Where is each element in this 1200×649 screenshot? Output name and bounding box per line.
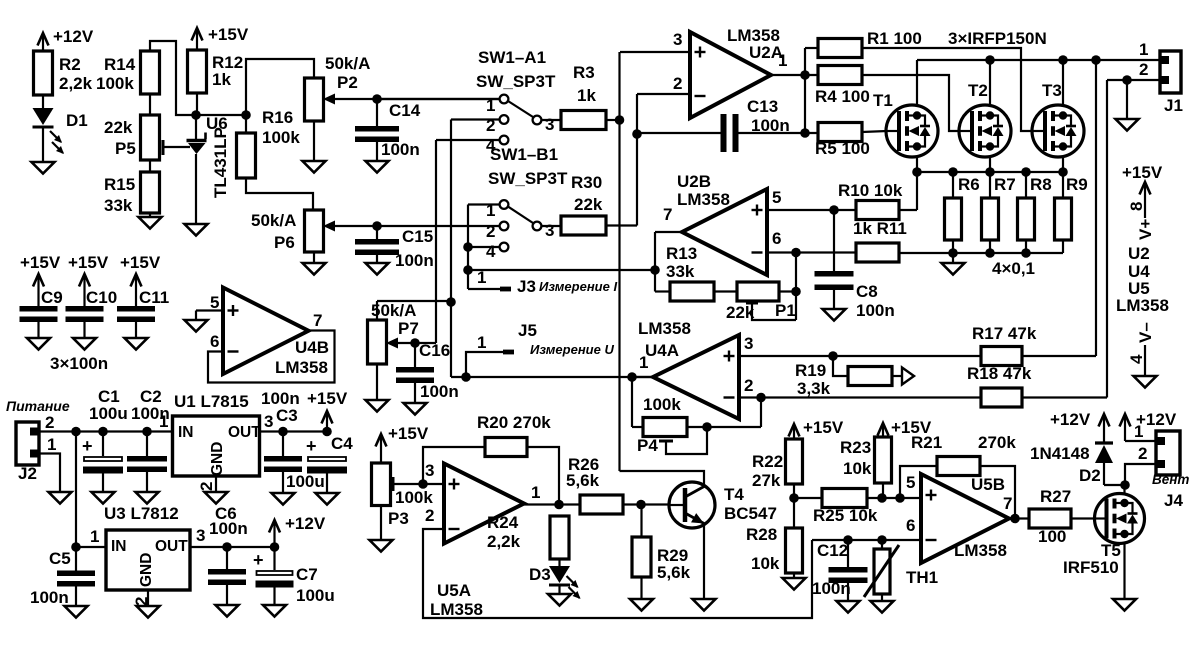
svg-text:+15V: +15V — [20, 253, 61, 272]
svg-text:R21: R21 — [911, 433, 942, 452]
svg-text:J5: J5 — [518, 321, 537, 340]
svg-text:3: 3 — [545, 115, 554, 134]
svg-text:100: 100 — [1038, 527, 1066, 546]
svg-text:7: 7 — [313, 311, 322, 330]
svg-text:R3: R3 — [573, 63, 595, 82]
svg-text:6: 6 — [906, 516, 915, 535]
svg-text:10k: 10k — [843, 459, 872, 478]
svg-text:C4: C4 — [331, 434, 353, 453]
svg-text:22k: 22k — [726, 303, 755, 322]
svg-text:C14: C14 — [389, 101, 421, 120]
svg-text:R25 10k: R25 10k — [813, 506, 878, 525]
svg-text:3: 3 — [744, 334, 753, 353]
svg-text:3×100n: 3×100n — [50, 354, 108, 373]
svg-text:R19: R19 — [795, 361, 826, 380]
svg-text:R15: R15 — [104, 175, 135, 194]
svg-text:7: 7 — [1003, 494, 1012, 513]
svg-text:GND: GND — [138, 553, 155, 587]
svg-text:V–: V– — [1136, 322, 1155, 343]
svg-text:IRF510: IRF510 — [1063, 558, 1119, 577]
svg-text:R9: R9 — [1066, 175, 1088, 194]
svg-text:P6: P6 — [274, 233, 295, 252]
svg-text:+15V: +15V — [120, 253, 161, 272]
svg-text:LM358: LM358 — [677, 190, 730, 209]
svg-text:R2: R2 — [59, 55, 81, 74]
svg-text:R24: R24 — [487, 513, 519, 532]
svg-text:C3: C3 — [276, 406, 298, 425]
svg-text:2: 2 — [1138, 444, 1147, 463]
svg-text:100u: 100u — [89, 404, 128, 423]
svg-text:LM358: LM358 — [275, 358, 328, 377]
svg-text:2,2k: 2,2k — [59, 74, 93, 93]
svg-text:LM358: LM358 — [430, 600, 483, 619]
svg-text:P5: P5 — [115, 139, 136, 158]
svg-text:1N4148: 1N4148 — [1030, 444, 1090, 463]
svg-text:2: 2 — [132, 597, 151, 606]
svg-text:100n: 100n — [395, 251, 434, 270]
svg-text:1: 1 — [90, 527, 99, 546]
svg-text:100n: 100n — [420, 382, 459, 401]
svg-text:1: 1 — [639, 353, 648, 372]
svg-text:D2: D2 — [1079, 466, 1101, 485]
svg-text:100n: 100n — [751, 116, 790, 135]
svg-text:8: 8 — [1127, 202, 1146, 211]
svg-text:33k: 33k — [666, 262, 695, 281]
svg-text:100k: 100k — [262, 128, 300, 147]
svg-text:1: 1 — [477, 333, 486, 352]
svg-text:50k/A: 50k/A — [371, 301, 416, 320]
svg-text:2,2k: 2,2k — [487, 532, 521, 551]
svg-text:U3 L7812: U3 L7812 — [104, 504, 179, 523]
svg-text:+15V: +15V — [803, 418, 844, 437]
svg-text:R4 100: R4 100 — [815, 87, 870, 106]
svg-text:C8: C8 — [856, 282, 878, 301]
svg-text:1: 1 — [159, 412, 168, 431]
svg-text:C7: C7 — [296, 565, 318, 584]
svg-text:2: 2 — [1139, 60, 1148, 79]
svg-text:Измерение U: Измерение U — [530, 342, 614, 357]
svg-text:100n: 100n — [856, 301, 895, 320]
svg-text:4×0,1: 4×0,1 — [992, 259, 1035, 278]
svg-text:IN: IN — [178, 424, 194, 441]
svg-text:Питание: Питание — [6, 398, 70, 414]
svg-text:4: 4 — [486, 242, 496, 261]
svg-text:R17 47k: R17 47k — [972, 324, 1037, 343]
svg-text:100k: 100k — [643, 395, 681, 414]
svg-text:2: 2 — [486, 116, 495, 135]
svg-text:R1 100: R1 100 — [867, 29, 922, 48]
svg-text:TL431LP: TL431LP — [211, 127, 230, 198]
svg-text:C16: C16 — [419, 341, 450, 360]
svg-text:P2: P2 — [337, 73, 358, 92]
svg-text:R10 10k: R10 10k — [838, 181, 903, 200]
svg-text:22k: 22k — [104, 118, 133, 137]
svg-text:P3: P3 — [388, 509, 409, 528]
svg-text:27k: 27k — [752, 471, 781, 490]
svg-text:C10: C10 — [86, 288, 117, 307]
svg-text:TH1: TH1 — [906, 568, 938, 587]
svg-text:3: 3 — [673, 30, 682, 49]
svg-text:SW1–A1: SW1–A1 — [478, 48, 546, 67]
svg-text:C15: C15 — [402, 227, 433, 246]
svg-text:+: + — [82, 436, 93, 456]
svg-text:R20 270k: R20 270k — [477, 413, 551, 432]
svg-text:33k: 33k — [104, 196, 133, 215]
svg-text:R27: R27 — [1040, 487, 1071, 506]
svg-text:3×IRFP150N: 3×IRFP150N — [948, 29, 1047, 48]
svg-text:5: 5 — [772, 188, 781, 207]
svg-text:J3: J3 — [517, 277, 536, 296]
svg-text:C5: C5 — [49, 549, 71, 568]
svg-text:100u: 100u — [296, 586, 335, 605]
svg-text:R28: R28 — [746, 525, 777, 544]
svg-text:2: 2 — [45, 413, 54, 432]
svg-text:T1: T1 — [873, 91, 893, 110]
svg-text:GND: GND — [209, 442, 226, 476]
svg-text:+15V: +15V — [388, 424, 429, 443]
svg-text:U4B: U4B — [295, 338, 329, 357]
svg-text:1: 1 — [1134, 422, 1143, 441]
svg-text:Измерение I: Измерение I — [539, 279, 617, 294]
svg-text:100k: 100k — [395, 488, 433, 507]
svg-text:1: 1 — [486, 201, 495, 220]
svg-text:V+: V+ — [1136, 219, 1155, 240]
svg-text:1k R11: 1k R11 — [853, 219, 907, 238]
svg-text:1: 1 — [778, 51, 787, 70]
svg-text:1: 1 — [486, 96, 495, 115]
svg-text:5,6k: 5,6k — [657, 563, 691, 582]
svg-text:C9: C9 — [41, 288, 63, 307]
svg-text:R8: R8 — [1030, 175, 1052, 194]
svg-text:C13: C13 — [747, 97, 778, 116]
svg-text:C11: C11 — [139, 288, 169, 307]
svg-text:5: 5 — [906, 473, 915, 492]
svg-text:D1: D1 — [66, 111, 88, 130]
svg-text:1: 1 — [47, 435, 56, 454]
svg-text:U2: U2 — [1128, 244, 1150, 263]
svg-text:10k: 10k — [751, 554, 780, 573]
svg-text:P1: P1 — [775, 301, 796, 320]
svg-text:2: 2 — [486, 222, 495, 241]
svg-text:+15V: +15V — [307, 389, 348, 408]
svg-text:+15V: +15V — [68, 253, 109, 272]
svg-text:100n: 100n — [30, 588, 69, 607]
svg-text:50k/A: 50k/A — [251, 211, 296, 230]
svg-text:LM358: LM358 — [1116, 296, 1169, 315]
svg-text:1k: 1k — [212, 70, 231, 89]
svg-text:U1 L7815: U1 L7815 — [174, 392, 249, 411]
svg-text:U5A: U5A — [437, 581, 471, 600]
svg-text:J2: J2 — [18, 464, 37, 483]
svg-text:P4: P4 — [637, 436, 658, 455]
svg-text:J4: J4 — [1164, 491, 1183, 510]
svg-text:R23: R23 — [840, 438, 871, 457]
svg-text:3,3k: 3,3k — [797, 379, 831, 398]
svg-text:R22: R22 — [752, 452, 783, 471]
svg-text:U2B: U2B — [677, 172, 711, 191]
svg-text:+: + — [306, 436, 317, 456]
svg-text:C12: C12 — [817, 541, 848, 560]
svg-text:2: 2 — [425, 506, 434, 525]
svg-text:2: 2 — [744, 376, 753, 395]
svg-text:5: 5 — [210, 293, 219, 312]
svg-text:OUT: OUT — [155, 538, 188, 555]
svg-text:100n: 100n — [381, 140, 420, 159]
svg-text:2: 2 — [197, 482, 216, 491]
svg-text:SW1–B1: SW1–B1 — [490, 145, 558, 164]
svg-text:+15V: +15V — [208, 25, 249, 44]
svg-text:+12V: +12V — [53, 27, 94, 46]
svg-text:1k: 1k — [577, 86, 596, 105]
svg-text:100k: 100k — [96, 74, 134, 93]
svg-text:3: 3 — [264, 412, 273, 431]
svg-text:R16: R16 — [262, 108, 293, 127]
svg-text:T3: T3 — [1042, 81, 1062, 100]
svg-text:LM358: LM358 — [638, 319, 691, 338]
svg-text:IN: IN — [111, 538, 127, 555]
svg-text:+15V: +15V — [1122, 163, 1163, 182]
svg-text:7: 7 — [663, 205, 672, 224]
svg-text:R14: R14 — [104, 55, 136, 74]
svg-text:P7: P7 — [398, 319, 419, 338]
svg-text:50k/A: 50k/A — [325, 54, 370, 73]
svg-text:1: 1 — [531, 483, 540, 502]
svg-text:2: 2 — [673, 74, 682, 93]
svg-text:R6: R6 — [958, 175, 980, 194]
svg-text:270k: 270k — [978, 433, 1016, 452]
svg-text:4: 4 — [1127, 354, 1146, 364]
svg-text:SW_SP3T: SW_SP3T — [488, 169, 568, 188]
svg-text:R7: R7 — [994, 175, 1016, 194]
svg-text:1: 1 — [477, 268, 486, 287]
svg-text:OUT: OUT — [228, 424, 261, 441]
svg-text:LM358: LM358 — [954, 541, 1007, 560]
svg-text:1: 1 — [1139, 40, 1148, 59]
svg-text:3: 3 — [196, 526, 205, 545]
svg-text:SW_SP3T: SW_SP3T — [476, 72, 556, 91]
svg-text:100n: 100n — [812, 579, 851, 598]
svg-text:R5 100: R5 100 — [815, 139, 870, 158]
svg-text:D3: D3 — [529, 565, 551, 584]
svg-text:+12V: +12V — [285, 514, 326, 533]
svg-text:R30: R30 — [571, 173, 602, 192]
svg-text:R18 47k: R18 47k — [967, 364, 1032, 383]
svg-text:U5B: U5B — [971, 475, 1005, 494]
svg-text:100u: 100u — [286, 472, 325, 491]
svg-text:+12V: +12V — [1050, 410, 1091, 429]
svg-text:22k: 22k — [574, 195, 603, 214]
svg-text:3: 3 — [425, 461, 434, 480]
svg-text:R13: R13 — [666, 244, 697, 263]
svg-text:+: + — [253, 550, 264, 570]
svg-text:J1: J1 — [1164, 96, 1183, 115]
svg-text:100n: 100n — [209, 519, 248, 538]
svg-text:6: 6 — [772, 229, 781, 248]
svg-text:U4A: U4A — [645, 341, 679, 360]
svg-text:Вент: Вент — [1152, 472, 1189, 487]
svg-text:3: 3 — [545, 221, 554, 240]
svg-text:5,6k: 5,6k — [566, 471, 600, 490]
svg-text:BC547: BC547 — [724, 504, 777, 523]
svg-text:T4: T4 — [724, 485, 744, 504]
svg-text:T2: T2 — [968, 81, 988, 100]
svg-text:6: 6 — [210, 332, 219, 351]
